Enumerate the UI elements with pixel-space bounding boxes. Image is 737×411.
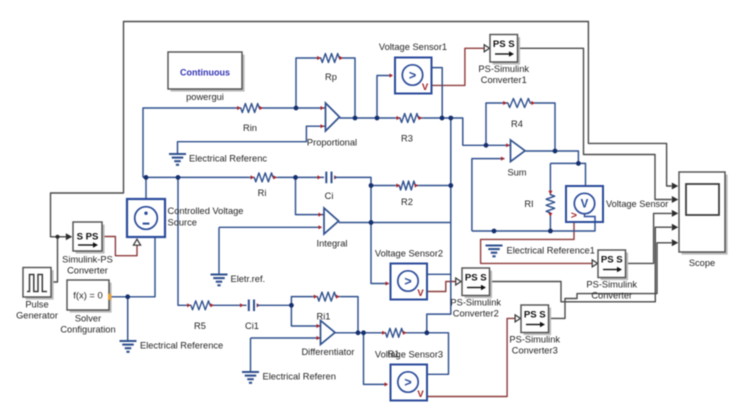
svg-text:Converter2: Converter2: [453, 309, 499, 319]
svg-text:Ri1: Ri1: [317, 312, 331, 322]
svg-text:Voltage Sensor1: Voltage Sensor1: [379, 42, 447, 52]
svg-text:Converter: Converter: [67, 266, 108, 276]
svg-text:Pulse: Pulse: [25, 300, 48, 310]
svg-text:R1: R1: [388, 349, 400, 359]
svg-text:V: V: [581, 199, 589, 211]
svg-text:R4: R4: [511, 119, 523, 129]
svg-text:Scope: Scope: [689, 258, 715, 268]
svg-text:PS-Simulink: PS-Simulink: [478, 64, 529, 74]
svg-text:R5: R5: [194, 321, 206, 331]
svg-text:Ci: Ci: [325, 191, 334, 201]
svg-text:Rin: Rin: [243, 123, 257, 133]
svg-text:f(x) = 0: f(x) = 0: [73, 290, 102, 301]
svg-text:PS S: PS S: [524, 310, 546, 321]
svg-text:Differentiator: Differentiator: [301, 347, 354, 357]
svg-text:Sum: Sum: [507, 168, 526, 178]
svg-text:Solver: Solver: [75, 314, 101, 324]
svg-text:Electrical Referenc: Electrical Referenc: [189, 154, 267, 164]
svg-text:Voltage Sensor: Voltage Sensor: [606, 199, 668, 209]
svg-text:Generator: Generator: [16, 311, 58, 321]
svg-text:>: >: [409, 68, 416, 82]
svg-text:PS S: PS S: [601, 255, 623, 266]
svg-text:>: >: [571, 210, 577, 222]
svg-text:Ci1: Ci1: [245, 321, 259, 331]
svg-text:Controlled Voltage: Controlled Voltage: [168, 206, 244, 216]
svg-text:V: V: [422, 82, 429, 93]
svg-text:Ri: Ri: [258, 188, 267, 198]
svg-text:Simulink-PS: Simulink-PS: [62, 255, 113, 265]
svg-text:PS S: PS S: [465, 273, 487, 284]
svg-text:Configuration: Configuration: [60, 325, 115, 335]
svg-text:Converter3: Converter3: [512, 346, 558, 356]
svg-text:S PS: S PS: [77, 232, 99, 243]
svg-text:>: >: [404, 274, 411, 288]
svg-text:Continuous: Continuous: [180, 68, 230, 78]
svg-text:Converter: Converter: [591, 291, 632, 301]
svg-text:Electrical Referen: Electrical Referen: [263, 372, 336, 382]
svg-text:Integral: Integral: [316, 239, 347, 249]
svg-text:Voltage Sensor2: Voltage Sensor2: [375, 249, 443, 259]
svg-text:R3: R3: [401, 134, 413, 144]
svg-text:R2: R2: [401, 197, 413, 207]
svg-text:PS S: PS S: [493, 39, 515, 50]
svg-text:Source: Source: [168, 218, 197, 228]
svg-text:V: V: [417, 389, 424, 400]
svg-text:PS-Simulink: PS-Simulink: [509, 335, 560, 345]
svg-text:Voltage Sensor3: Voltage Sensor3: [375, 350, 443, 360]
svg-text:Rp: Rp: [325, 72, 337, 82]
svg-text:Electrical Reference1: Electrical Reference1: [507, 246, 595, 256]
svg-text:Proportional: Proportional: [307, 138, 357, 148]
svg-text:powergui: powergui: [186, 92, 224, 102]
svg-text:PS-Simulink: PS-Simulink: [586, 280, 637, 290]
svg-text:Converter1: Converter1: [481, 75, 527, 85]
svg-text:V: V: [417, 288, 424, 299]
svg-text:Eletr.ref.: Eletr.ref.: [231, 274, 266, 284]
svg-text:>: >: [404, 375, 411, 389]
svg-text:RI: RI: [524, 199, 533, 209]
svg-text:PS-Simulink: PS-Simulink: [450, 298, 501, 308]
svg-text:Electrical Reference: Electrical Reference: [140, 341, 223, 351]
